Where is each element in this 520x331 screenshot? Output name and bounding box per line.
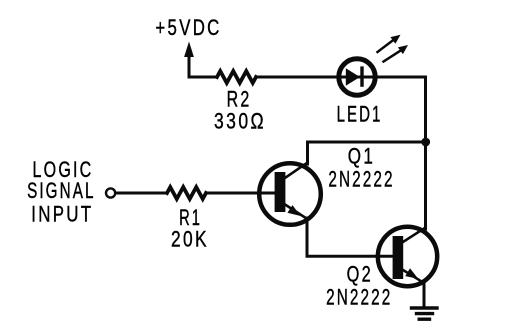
power arrow +5VDC supply <box>184 42 194 78</box>
wire LED1 to node A <box>378 76 426 79</box>
wire input terminal to R1 <box>116 192 168 195</box>
resistor R2 <box>217 71 256 83</box>
transistor Q1 <box>259 142 321 230</box>
value 2N2222 (Q1) <box>328 168 394 192</box>
value 330Ω <box>214 109 266 133</box>
wire supply corner to R2 <box>189 76 217 79</box>
label Q2 <box>347 262 373 287</box>
svg-text:SIGNAL: SIGNAL <box>27 179 95 203</box>
LED LED1 <box>338 59 378 95</box>
value 20K <box>171 228 209 252</box>
wire Q2 emitter to ground <box>423 283 426 307</box>
power label +5VDC <box>155 16 221 41</box>
svg-text:2N2222: 2N2222 <box>328 168 394 192</box>
wire node A vertical (LED to Q2 collector) <box>424 77 427 229</box>
svg-text:Q1: Q1 <box>348 145 375 170</box>
wire Q1 collector to node A <box>308 141 426 144</box>
wire Q1 emitter to Q2 base <box>307 229 394 256</box>
svg-text:330Ω: 330Ω <box>214 109 266 133</box>
input label LOGIC SIGNAL INPUT <box>27 159 95 227</box>
ground <box>412 308 438 319</box>
LED1 light emission arrows <box>378 35 409 62</box>
svg-text:LED1: LED1 <box>337 102 383 127</box>
wire R2 to LED1 <box>256 76 338 79</box>
junction node A <box>421 138 430 147</box>
svg-text:Q2: Q2 <box>347 262 373 287</box>
input terminal <box>106 188 115 197</box>
label Q1 <box>348 145 375 170</box>
svg-text:+5VDC: +5VDC <box>155 16 221 41</box>
label R2 <box>227 88 252 112</box>
transistor Q2 <box>378 227 437 286</box>
svg-text:2N2222: 2N2222 <box>326 286 392 310</box>
svg-text:INPUT: INPUT <box>31 202 93 227</box>
resistor R1 <box>167 187 206 199</box>
wire R1 to Q1 base <box>206 192 276 195</box>
label R1 <box>179 205 202 230</box>
svg-text:20K: 20K <box>171 228 209 252</box>
svg-text:R1: R1 <box>179 205 202 230</box>
value 2N2222 (Q2) <box>326 286 392 310</box>
label LED1 <box>337 102 383 127</box>
